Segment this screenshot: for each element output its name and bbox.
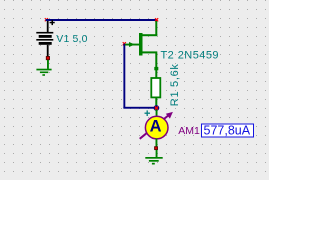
- terminal square source: [154, 67, 158, 70]
- ammeter AM1: [140, 110, 173, 138]
- battery terminal square: [46, 57, 49, 60]
- channel bar: [139, 33, 143, 56]
- wire: terminal to body: [155, 70, 157, 78]
- svg-text:AM1: AM1: [178, 125, 200, 137]
- drain lead vertical: [155, 21, 157, 36]
- wire: top horizontal V1+ to T2 drain: [46, 19, 158, 21]
- node X: battery + corner: [45, 18, 48, 21]
- wire: junction to ammeter (green): [156, 110, 158, 118]
- battery V1: [36, 20, 54, 57]
- battery bottom lead: [47, 45, 49, 57]
- wire: body to junction: [155, 97, 157, 106]
- battery top lead: [47, 21, 49, 32]
- battery plate long 1: [36, 32, 53, 34]
- junction node (navy dot with red X): [154, 105, 160, 111]
- svg-text:577,8uA: 577,8uA: [204, 124, 251, 138]
- canvas background: [0, 0, 269, 180]
- resistor R1: [151, 70, 160, 106]
- gate lead: [125, 44, 139, 46]
- wire: gate net (navy) vertical: [123, 44, 125, 108]
- resistor body: [151, 78, 160, 97]
- wire: terminal to ground (green): [156, 150, 158, 157]
- wire: battery to ground (green): [47, 60, 49, 69]
- gate arrow: [129, 42, 135, 47]
- meter arrow (purple, behind circle): [140, 115, 169, 139]
- ground (ammeter): [145, 157, 162, 165]
- svg-text:A: A: [150, 118, 162, 136]
- wire: ammeter bottom (green): [156, 139, 158, 147]
- drain lead horizontal: [141, 34, 157, 36]
- battery plate short 2: [39, 42, 52, 45]
- ammeter terminal square: [155, 147, 158, 150]
- transistor T2 (JFET): [125, 21, 158, 70]
- battery plate short 1: [39, 35, 52, 38]
- svg-text:T2 2N5459: T2 2N5459: [161, 50, 219, 62]
- node X: gate: [123, 42, 126, 45]
- source lead vertical: [155, 53, 157, 67]
- value box 577,8uA: [202, 124, 254, 137]
- wire: gate net (navy) horizontal to junction: [123, 107, 154, 109]
- battery plate long 2: [36, 39, 53, 41]
- source lead horizontal: [141, 51, 157, 53]
- ground (battery): [36, 69, 51, 76]
- node X: drain top corner: [155, 18, 158, 21]
- battery plus sign: [50, 22, 55, 24]
- svg-text:R1 5,6k: R1 5,6k: [169, 63, 181, 106]
- plus sign (teal): [145, 110, 151, 116]
- meter circle: [145, 116, 168, 139]
- svg-text:V1 5,0: V1 5,0: [56, 33, 87, 45]
